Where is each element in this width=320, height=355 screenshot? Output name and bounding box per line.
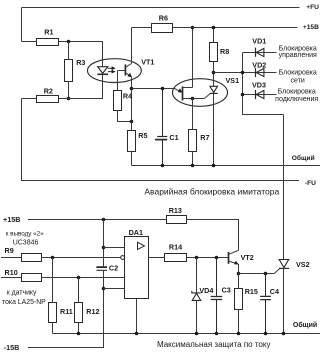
thyristor VS2 bbox=[279, 260, 289, 268]
svg-text:R15: R15 bbox=[245, 287, 258, 296]
wire VT2 emitter down bbox=[238, 264, 240, 274]
optocoupler VS1 ellipse bbox=[173, 79, 228, 107]
wire +15V rail bbox=[132, 27, 298, 29]
resistor R14 bbox=[165, 254, 187, 262]
svg-text:Максимальная защита по току: Максимальная защита по току bbox=[157, 340, 271, 349]
wire left drop +FU to R1 bbox=[21, 8, 23, 42]
resistor R15 bbox=[235, 289, 243, 310]
wire R3 leads bbox=[68, 42, 70, 99]
svg-text:R2: R2 bbox=[44, 87, 53, 96]
svg-text:к датчику: к датчику bbox=[7, 290, 37, 297]
wire lower common rail bbox=[53, 333, 320, 335]
node C4 top bbox=[264, 272, 268, 276]
wire +FU top rail bbox=[22, 7, 300, 9]
svg-text:R13: R13 bbox=[169, 206, 182, 215]
node C1 top bbox=[161, 87, 165, 91]
wire gate diagonal to VS2 bbox=[274, 268, 280, 273]
wire to DA1 lower-left pin bbox=[104, 288, 125, 290]
wire common drop to VS2 bbox=[283, 115, 285, 260]
svg-text:к выводу «2»: к выводу «2» bbox=[6, 230, 45, 237]
svg-text:управления: управления bbox=[279, 52, 317, 59]
svg-text:-15В: -15В bbox=[4, 343, 20, 352]
svg-text:Блокировка: Блокировка bbox=[278, 89, 316, 96]
resistor R7 bbox=[189, 130, 197, 152]
wire R5 leads bbox=[131, 122, 133, 166]
resistor R12 bbox=[75, 303, 83, 323]
svg-text:R14: R14 bbox=[169, 243, 182, 252]
node VD2 on bus bbox=[241, 71, 245, 75]
wire VD anode bus bbox=[243, 53, 284, 115]
resistor R6 on +15V rail bbox=[152, 24, 173, 33]
svg-text:-FU: -FU bbox=[305, 180, 316, 187]
wire R1 leads bbox=[22, 41, 69, 43]
svg-text:C1: C1 bbox=[169, 133, 178, 142]
wire VT1 emitter down bbox=[131, 77, 133, 122]
VS1 transistor top lead bbox=[183, 87, 193, 89]
svg-text:VT1: VT1 bbox=[141, 58, 154, 67]
wire DA1 out to R14 bbox=[149, 257, 165, 259]
svg-text:R1: R1 bbox=[44, 28, 53, 37]
inverting input circle of DA1 bbox=[121, 256, 125, 260]
node C3 bottom on common bbox=[215, 332, 219, 336]
node junction R3/R2 bbox=[67, 97, 71, 101]
svg-text:C4: C4 bbox=[270, 287, 279, 296]
node VD4 bottom on common bbox=[195, 332, 199, 336]
phototransistor emitter diagonal bbox=[125, 73, 131, 77]
capacitor C3 bbox=[216, 258, 218, 334]
svg-text:R10: R10 bbox=[5, 268, 18, 277]
node R4/R5 bbox=[130, 120, 134, 124]
svg-text:UC3846: UC3846 bbox=[13, 239, 39, 246]
wire to DA1 top-left pin bbox=[104, 247, 125, 249]
svg-text:R3: R3 bbox=[76, 58, 85, 67]
wire VS1 collector to +15V rail bbox=[192, 28, 194, 88]
svg-text:Аварийная блокировка имитатора: Аварийная блокировка имитатора bbox=[144, 187, 279, 197]
wire R7 leads bbox=[192, 99, 194, 166]
node R7 bottom on common bbox=[191, 164, 195, 168]
node R12 on common bbox=[77, 332, 81, 336]
node DA1 bottom pin bbox=[135, 332, 139, 336]
resistor R10 bbox=[22, 274, 42, 282]
svg-text:R6: R6 bbox=[159, 14, 168, 23]
resistor R5 bbox=[128, 131, 136, 152]
resistor R4 bbox=[114, 91, 122, 111]
wire upper common rail bbox=[132, 165, 320, 167]
svg-text:R7: R7 bbox=[200, 133, 209, 142]
resistor R1 bbox=[37, 39, 59, 46]
svg-text:R8: R8 bbox=[220, 47, 229, 56]
svg-text:VD3: VD3 bbox=[252, 80, 266, 89]
phototransistor collector diagonal bbox=[125, 64, 131, 68]
wire VT1 collector to +15V rail bbox=[131, 28, 133, 64]
LED of VT1 bbox=[98, 67, 108, 74]
resistor R13 bbox=[167, 216, 187, 224]
node +15V rail at VS1 bbox=[191, 26, 195, 30]
transistor VT2 bar bbox=[228, 252, 230, 264]
phototransistor of VT1 bar bbox=[124, 64, 126, 75]
wire emitter node to VS2 gate bbox=[239, 273, 275, 275]
svg-text:R9: R9 bbox=[5, 246, 14, 255]
diode VD3 bbox=[243, 94, 277, 96]
svg-text:подключения: подключения bbox=[275, 96, 318, 103]
comparator DA1 bbox=[125, 237, 149, 299]
wire R14 to VT2 base bbox=[187, 257, 229, 259]
svg-text:C2: C2 bbox=[109, 263, 118, 272]
svg-text:DA1: DA1 bbox=[129, 228, 143, 237]
node VS1 cathode on common bbox=[212, 164, 216, 168]
svg-text:+15В: +15В bbox=[3, 215, 20, 224]
wire C2 bottom to -15V bbox=[28, 271, 104, 348]
wire R12 leads bbox=[78, 278, 80, 334]
svg-text:Общий: Общий bbox=[292, 154, 315, 162]
wire -FU bottom of upper section bbox=[22, 99, 300, 181]
wire gate of VS1 thyristor bbox=[193, 98, 205, 100]
VT2 collector diagonal bbox=[229, 250, 239, 254]
node R8 bottom bbox=[212, 71, 216, 75]
diode VD1 bbox=[243, 52, 277, 54]
svg-text:VD2: VD2 bbox=[252, 61, 266, 70]
resistor R9 bbox=[22, 254, 42, 262]
wire R11 leads bbox=[52, 258, 54, 334]
wire gate diagonal bbox=[204, 93, 210, 98]
wire emitter node to VS1 bbox=[132, 88, 175, 90]
resistor R2 bbox=[37, 96, 59, 103]
VS1 input transistor bar bbox=[182, 86, 184, 100]
node C3 top bbox=[215, 256, 219, 260]
wire R10 leads bbox=[1, 277, 125, 279]
wire R8 to VD bus bbox=[214, 72, 243, 74]
zener diode VD4 bbox=[196, 258, 198, 334]
svg-text:VS1: VS1 bbox=[226, 76, 240, 85]
node VS2 cathode on common bbox=[282, 332, 286, 336]
svg-text:Блокировка: Блокировка bbox=[279, 70, 317, 77]
node C2 bottom / DA1 pin branch bbox=[102, 287, 106, 291]
svg-text:C3: C3 bbox=[222, 286, 231, 295]
node DA1 supply pin branch bbox=[102, 246, 106, 250]
node VD3 on bus bbox=[241, 93, 245, 97]
light arrows of VT1 bbox=[108, 68, 112, 71]
VT2 emitter diagonal bbox=[229, 261, 238, 264]
svg-text:VS2: VS2 bbox=[296, 260, 310, 269]
svg-text:тока LA25-NP: тока LA25-NP bbox=[2, 299, 46, 306]
node junction R1/R3 bbox=[67, 40, 71, 44]
VS1 transistor bottom lead bbox=[183, 98, 193, 100]
wire R2 to LED cathode bbox=[69, 74, 103, 98]
resistor R3 bbox=[65, 60, 73, 82]
capacitor C1 bbox=[162, 89, 164, 166]
wire DA1 bottom pin to common bbox=[136, 299, 138, 334]
wire R13 right to VT2 collector bbox=[187, 220, 239, 251]
wire R15 leads bbox=[238, 274, 240, 334]
svg-text:Общий: Общий bbox=[293, 321, 317, 329]
wire C2 branch vertical bbox=[103, 220, 105, 267]
node R9 / R11 branch bbox=[51, 256, 55, 260]
wire R8 leads bbox=[213, 28, 215, 73]
phototransistor base lead bbox=[118, 70, 126, 72]
optocoupler VT1 ellipse bbox=[88, 59, 142, 83]
svg-text:сети: сети bbox=[291, 78, 305, 85]
wire R4 leads bbox=[118, 71, 132, 122]
resistor R8 bbox=[210, 43, 218, 62]
node R15 bottom on common bbox=[237, 332, 241, 336]
capacitor C4 bbox=[265, 274, 267, 334]
svg-text:VD1: VD1 bbox=[252, 37, 266, 46]
node C4 bottom on common bbox=[264, 332, 268, 336]
wire R2 leads bbox=[22, 98, 69, 100]
svg-text:VD4: VD4 bbox=[199, 286, 213, 295]
capacitor C2 bbox=[96, 266, 107, 268]
node R8 top on +15V rail bbox=[212, 26, 216, 30]
svg-text:VT2: VT2 bbox=[241, 253, 254, 262]
node VT2 emitter / R15 bbox=[237, 272, 241, 276]
node C1 bottom on common bbox=[161, 164, 165, 168]
node R10 / R12 branch bbox=[77, 276, 81, 280]
resistor R11 bbox=[49, 303, 57, 323]
svg-text:R12: R12 bbox=[86, 307, 99, 316]
node VD4 top bbox=[195, 256, 199, 260]
svg-text:+15В: +15В bbox=[303, 24, 319, 31]
node +15V / C2 branch bbox=[102, 218, 106, 222]
svg-text:R11: R11 bbox=[60, 307, 73, 316]
arrow into VS1 input bbox=[175, 89, 182, 93]
svg-text:R5: R5 bbox=[138, 131, 147, 140]
thyristor of VS1 bbox=[213, 73, 215, 87]
node emitter / C1 branch bbox=[130, 87, 134, 91]
wire +15V lower rail bbox=[28, 219, 167, 221]
svg-text:+FU: +FU bbox=[306, 4, 319, 11]
diode VD2 bbox=[243, 72, 277, 74]
wire R1 to LED anode bbox=[69, 42, 103, 67]
node VS1 emitter / R7 bbox=[191, 97, 195, 101]
wire R9 leads bbox=[1, 257, 121, 259]
svg-text:R4: R4 bbox=[123, 91, 132, 100]
